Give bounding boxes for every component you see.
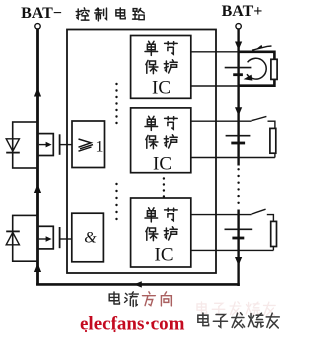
- and-gate box &: [72, 213, 104, 262]
- svg-text:IC: IC: [152, 78, 171, 99]
- svg-text:elecfans·com: elecfans·com: [80, 314, 185, 335]
- svg-text:IC: IC: [155, 245, 174, 266]
- battery cell B2: [226, 136, 251, 143]
- wire Q1 gate to OR gate: [60, 144, 72, 146]
- protection IC box U2: [131, 108, 191, 173]
- node dots ellipsis left lower: [115, 183, 117, 220]
- current arrow down mid: [235, 107, 242, 116]
- label U3 单节保护IC: [145, 208, 177, 241]
- label BAT-: [21, 5, 62, 22]
- transistor Q1 body box: [13, 122, 38, 168]
- label 电流方向: [109, 292, 138, 307]
- wire U1 bottom to cell B1: [191, 85, 239, 87]
- wire battery stack lower: [237, 210, 239, 287]
- current loop highlight box: [239, 52, 275, 86]
- current direction loop arrow: [244, 58, 267, 80]
- node dots ellipsis left upper: [115, 83, 117, 124]
- wire U2 bottom to resistor R2: [191, 153, 275, 157]
- resistor R1: [271, 59, 277, 79]
- wire Q2 gate to AND gate: [60, 238, 72, 240]
- battery cell B1: [225, 68, 252, 75]
- diode D2: [6, 231, 20, 260]
- transistor Q2 gate bar: [59, 227, 61, 248]
- terminal BAT-: [35, 24, 40, 29]
- wire U3 top to switch S3: [191, 214, 252, 216]
- transistor Q1 gate bar: [59, 134, 61, 155]
- protection IC box U1: [131, 36, 191, 99]
- transistor Q2 body box: [13, 215, 38, 261]
- resistor R3: [271, 221, 277, 246]
- label U1 单节保护IC: [145, 41, 177, 73]
- protection IC box U3: [131, 198, 191, 267]
- control circuit box: [67, 30, 216, 274]
- or-gate box ≥1: [72, 121, 105, 168]
- transistor Q1 arrow: [39, 142, 52, 148]
- wire U3 bottom to resistor R3: [191, 247, 274, 251]
- wire bottom return: [36, 283, 240, 286]
- current arrow up 2: [34, 184, 41, 193]
- label U2 单节保护IC: [145, 116, 177, 148]
- wire battery stack upper: [237, 29, 239, 165]
- svg-text:BAT−: BAT−: [21, 5, 62, 22]
- current arrow left bottom: [134, 281, 142, 287]
- transistor Q2 arrow: [39, 236, 52, 242]
- current arrow down top: [235, 42, 242, 51]
- svg-text:1: 1: [96, 139, 104, 156]
- logo accent dots: [85, 322, 154, 332]
- node dots battery stack ellipsis: [237, 168, 239, 204]
- svg-text:&: &: [84, 229, 97, 246]
- current arrow up 1: [34, 88, 41, 97]
- diode D1: [6, 139, 20, 153]
- transistor Q1 channel box: [38, 134, 54, 156]
- current arrow down bottom: [235, 257, 242, 266]
- switch S3: [252, 209, 274, 221]
- wire U2 top to switch S2: [191, 120, 252, 122]
- watermark ghost row: [197, 302, 275, 316]
- switch S2: [252, 116, 275, 128]
- wire U1 top to cell B1: [191, 51, 239, 53]
- label 控制电路: [76, 8, 144, 21]
- node dots ellipsis IC column: [163, 177, 165, 197]
- current arrow up 3: [34, 263, 41, 272]
- wire BAT- main vertical: [36, 29, 39, 285]
- battery cell B3: [225, 229, 253, 238]
- resistor R2: [270, 128, 276, 153]
- transistor Q2 channel box: [38, 226, 54, 249]
- switch S1: [252, 45, 272, 50]
- logo elecfans.com: [80, 314, 185, 335]
- label BAT+: [222, 3, 263, 20]
- terminal BAT+: [236, 24, 241, 29]
- logo 电子发烧友: [198, 313, 279, 328]
- svg-text:IC: IC: [153, 154, 172, 175]
- svg-text:BAT+: BAT+: [222, 3, 263, 20]
